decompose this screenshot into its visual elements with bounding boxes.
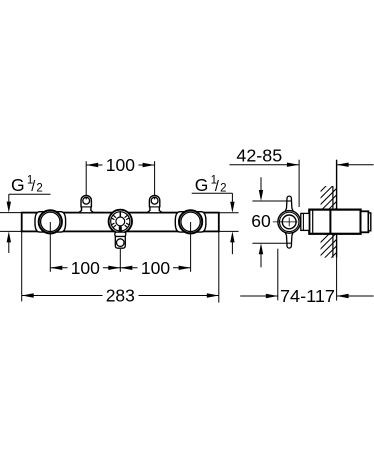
left mounting bracket	[79, 195, 94, 212]
wire top dim extension line left bracket	[85, 161, 87, 195]
side view centerlines	[273, 221, 298, 223]
extension line right union down	[190, 222, 192, 272]
wall hatching lower	[316, 223, 340, 273]
dimension 100 top line right segment	[139, 164, 155, 166]
svg-text:2: 2	[36, 182, 42, 194]
connector between union and box	[301, 213, 310, 230]
wall hatching upper	[316, 172, 340, 229]
left union circle G1/2	[39, 210, 62, 233]
right mounting bracket	[147, 195, 162, 212]
svg-text:G: G	[11, 175, 25, 195]
extension line fitting front face	[277, 249, 279, 301]
svg-text:2: 2	[220, 182, 226, 194]
side view union circles	[278, 211, 301, 234]
wall inner line lower	[332, 234, 334, 258]
box inner flange line	[312, 211, 314, 233]
wall inner line upper	[332, 186, 334, 209]
dimension 74-117	[240, 295, 278, 297]
G1/2 left arrows	[7, 202, 11, 213]
G1/2 right measuring ticks	[219, 212, 239, 214]
svg-text:100: 100	[141, 258, 170, 278]
dimension 100 bottom left	[50, 267, 67, 269]
wall outer line upper	[336, 160, 338, 210]
left union boss	[35, 212, 66, 232]
wire top dim extension line right bracket	[154, 161, 156, 195]
side view top nipple	[285, 196, 294, 212]
wall outer line lower	[336, 234, 338, 258]
dimension 60 extension top	[252, 200, 291, 202]
central cross fitting handwheel	[109, 210, 132, 233]
dimension 60 extension bottom	[252, 242, 291, 244]
dimension 283	[22, 295, 103, 297]
extension line bar right end down	[218, 232, 220, 303]
arrow left of top 100	[86, 163, 98, 167]
box joint line	[329, 210, 331, 234]
rail bar body	[22, 213, 219, 232]
svg-text:G: G	[195, 175, 209, 195]
G1/2 right arrows	[230, 202, 234, 213]
extension line left union down	[49, 222, 51, 272]
dimension 42-85 right arrow at wall	[337, 163, 349, 167]
svg-text:100: 100	[106, 155, 135, 175]
side view bottom nipple	[285, 232, 294, 248]
svg-text:100: 100	[71, 258, 100, 278]
label G1/2 right	[195, 175, 227, 196]
extension line bar left end down	[21, 232, 23, 302]
G1/2 left measuring ticks	[0, 212, 22, 214]
right union circle G1/2	[179, 210, 202, 233]
label G1/2 left	[11, 175, 43, 196]
outlet below handwheel	[115, 232, 126, 248]
svg-text:74-117: 74-117	[280, 286, 335, 306]
svg-text:283: 283	[106, 286, 135, 306]
leader G1/2 right	[192, 192, 233, 194]
arrow right of top 100	[143, 163, 155, 167]
wall extension line to 74-117	[336, 258, 338, 301]
svg-text:60: 60	[251, 211, 271, 231]
dimension 100 bottom right	[120, 267, 137, 269]
dimension 42-85 line	[230, 164, 299, 166]
extension line center down	[119, 249, 121, 272]
extension line fitting rear face	[298, 160, 300, 207]
leader G1/2 left	[9, 193, 51, 195]
box end cap	[361, 211, 369, 232]
svg-text:42-85: 42-85	[236, 146, 282, 166]
concealed body box	[309, 210, 360, 234]
right union boss	[175, 212, 206, 232]
box end tip	[368, 213, 370, 231]
dimension 100 top line left segment	[86, 164, 102, 166]
dimension 60 arrows	[260, 177, 262, 192]
